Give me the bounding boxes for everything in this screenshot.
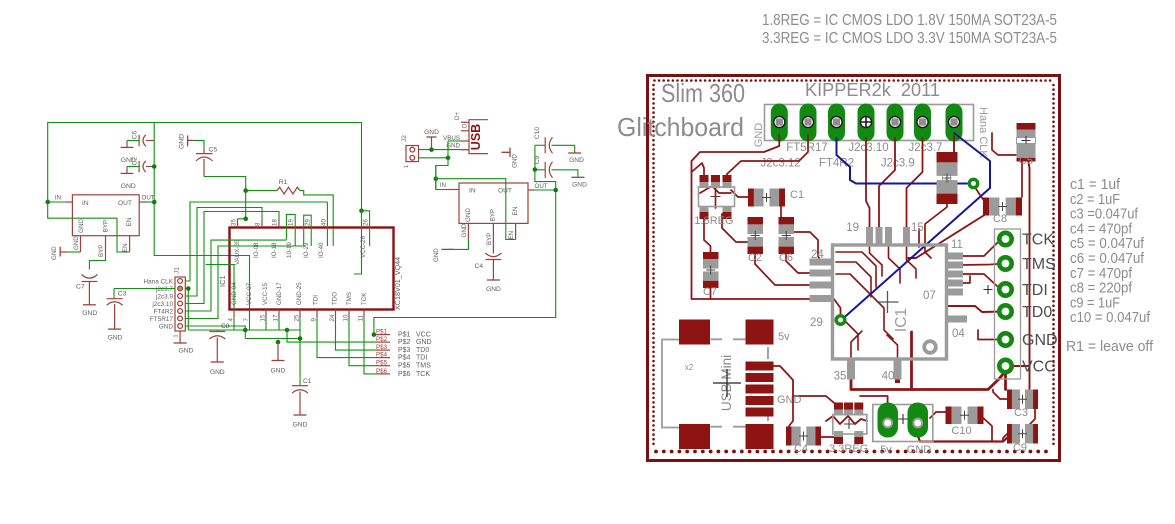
capacitor C4 [786, 427, 792, 446]
ground GND C10 [568, 152, 581, 154]
junction GND sym [276, 340, 281, 345]
wire hana to C5 [992, 133, 1016, 155]
svg-text:GND: GND [512, 154, 519, 168]
svg-text:Hana CLK: Hana CLK [144, 278, 174, 285]
svg-text:GND: GND [416, 339, 432, 346]
svg-text:VCC: VCC [416, 332, 431, 339]
svg-text:c9 = 1uF: c9 = 1uF [1070, 295, 1120, 311]
wire C9/C10 left [535, 145, 556, 190]
capacitor C3 [1007, 390, 1012, 410]
wire via to C8 [973, 184, 985, 202]
wire C2 to IC pin [755, 251, 821, 285]
wire IC to TMS pad [962, 264, 1004, 266]
svg-text:C5: C5 [1019, 155, 1033, 167]
svg-text:TDI: TDI [416, 355, 427, 362]
svg-text:C9: C9 [1013, 442, 1027, 454]
svg-text:R1 = leave off: R1 = leave off [1066, 339, 1154, 355]
wire 3.3REG zigzag [826, 416, 867, 424]
ground GND J1 [179, 331, 181, 343]
wire IC interior 2 [836, 262, 871, 297]
drill hole IC1 [924, 341, 936, 353]
svg-text:GND: GND [107, 335, 122, 342]
wire VCC pad right [1011, 365, 1030, 367]
svg-text:c1 = 1uf: c1 = 1uf [1070, 177, 1121, 193]
pin 4 [233, 310, 235, 318]
pin 15 pad [903, 227, 910, 244]
pin IN REG2 [448, 189, 459, 191]
svg-text:35: 35 [834, 371, 847, 383]
svg-text:P$3: P$3 [398, 347, 411, 354]
svg-text:c6 = 0.047uf: c6 = 0.047uf [1070, 251, 1145, 267]
svg-text:R1: R1 [279, 179, 288, 186]
capacitor C1 [748, 189, 754, 207]
wire header5 to IC [879, 138, 895, 229]
pad GND [999, 333, 1011, 345]
svg-text:EN: EN [126, 218, 133, 227]
pad header pin 1 [771, 104, 788, 142]
pad header pin 2 [800, 104, 817, 142]
voltage regulator REG1 (1.8REG) [72, 195, 139, 236]
wire GND loop left [692, 135, 841, 317]
pin 11 [363, 310, 365, 318]
pad TDI [999, 283, 1011, 295]
wire bundle FT5R17 [185, 246, 303, 319]
wire C10 right down [981, 416, 992, 442]
svg-text:D+: D+ [454, 112, 461, 120]
voltage regulator REG2 (3.3REG) [459, 183, 528, 223]
capacitor C1 [292, 385, 308, 387]
wire C10 left [930, 412, 946, 418]
pin EN REG1 [129, 236, 131, 252]
svg-text:GND-17: GND-17 [276, 282, 283, 305]
svg-text:C1: C1 [790, 189, 804, 201]
wire C7 gnd [710, 285, 712, 299]
wire 1.8REG interior [700, 186, 731, 193]
wire blue net hana [843, 133, 990, 319]
svg-text:C1: C1 [303, 378, 312, 385]
wire IC interior 7 [907, 246, 917, 278]
resistor R1 [246, 190, 277, 192]
wire C5 to R1 node [204, 177, 246, 219]
IC1 footprint outline [833, 245, 947, 359]
junction C1 node [298, 336, 303, 341]
svg-text:TCK: TCK [361, 292, 368, 305]
svg-text:GND: GND [293, 422, 308, 429]
wire blue net FT4R2 [837, 138, 968, 184]
svg-text:C2: C2 [132, 157, 139, 166]
ground GND under IC [277, 342, 279, 360]
junction R1 node [243, 188, 248, 193]
svg-text:BYP: BYP [486, 233, 493, 245]
svg-text:IO-18: IO-18 [271, 242, 278, 258]
svg-text:P$4: P$4 [376, 352, 388, 359]
wire header7 to R1 [953, 136, 955, 154]
capacitor C8 [216, 330, 218, 332]
wire border to 1.8REG pad1 [692, 163, 705, 176]
wire header6 to IC pin15 [907, 138, 923, 229]
wire GND J1 pin7 [185, 326, 245, 330]
wire IC interior 8 [887, 335, 898, 358]
wire J2-1 to USB GND [419, 149, 462, 151]
wire OUT net [535, 189, 556, 191]
pin 40 U-loop [326, 202, 328, 246]
svg-text:TCK: TCK [416, 371, 430, 378]
svg-text:IC1: IC1 [218, 275, 227, 287]
capacitor C2 [138, 161, 140, 172]
svg-text:GND: GND [424, 129, 439, 136]
svg-text:J2c3.10: J2c3.10 [848, 142, 888, 154]
pad TCK [999, 233, 1011, 245]
svg-text:BYP: BYP [103, 220, 110, 232]
wire BYP to C7 [89, 252, 105, 270]
wire header2 to 1.8REG [727, 135, 808, 180]
junction C2 [152, 164, 157, 169]
svg-text:P$2: P$2 [376, 336, 388, 343]
connector J2 [406, 146, 419, 162]
svg-text:C6: C6 [132, 130, 139, 139]
svg-text:KIPPER2k 2011: KIPPER2k 2011 [805, 80, 940, 100]
pin 35 [237, 219, 239, 228]
pin IN REG1 [65, 201, 73, 203]
ground GND REG2 [448, 240, 469, 250]
svg-text:C4: C4 [794, 443, 808, 455]
svg-text:c7 = 470pf: c7 = 470pf [1070, 266, 1133, 282]
svg-text:R1: R1 [941, 173, 953, 183]
svg-text:GND: GND [178, 348, 193, 355]
svg-text:J1: J1 [174, 267, 181, 274]
svg-text:1.8REG = IC CMOS LDO 1.8V 150M: 1.8REG = IC CMOS LDO 1.8V 150MA SOT23A-5 [762, 12, 1057, 29]
svg-text:C6: C6 [779, 252, 793, 264]
right pins [946, 253, 963, 260]
svg-text:IN: IN [469, 188, 476, 195]
pin 7 [249, 310, 251, 318]
wire bundle j2c3.9 [185, 208, 262, 297]
svg-text:IN: IN [82, 200, 89, 207]
wire interior net [206, 265, 234, 310]
svg-text:P$6: P$6 [376, 368, 388, 375]
svg-text:C5: C5 [209, 147, 218, 154]
wire C8 down left [908, 214, 986, 258]
USB Mini middle pins [746, 362, 774, 371]
svg-text:40: 40 [321, 219, 328, 226]
pad TMS [999, 257, 1011, 269]
svg-text:GND: GND [73, 236, 80, 250]
wire TCK P$6 [364, 318, 375, 374]
wire C6 to IC pin [786, 251, 821, 273]
svg-text:TDO: TDO [332, 292, 339, 305]
svg-text:C10: C10 [951, 425, 971, 437]
ground GND left of REG1 [60, 247, 67, 257]
ground GND C5 [188, 135, 193, 146]
svg-text:P$3: P$3 [376, 344, 388, 351]
svg-text:GND: GND [78, 219, 85, 233]
svg-text:29: 29 [810, 317, 823, 329]
wire R1 down [925, 200, 947, 258]
svg-text:GND: GND [210, 369, 225, 376]
pin 8 [261, 221, 263, 228]
pad TD0 [999, 305, 1011, 317]
wire 1.8REG to C2 [722, 214, 750, 242]
svg-text:EN: EN [512, 207, 519, 216]
wire IC interior 5 [870, 246, 883, 276]
svg-text:J2: J2 [401, 135, 408, 142]
svg-text:Glitchboard: Glitchboard [617, 112, 744, 142]
junction GND C8 [243, 328, 248, 333]
junction GND [285, 328, 290, 333]
pin BYP REG2 [492, 223, 494, 253]
pin 15 [265, 310, 267, 318]
ground GND C3 [108, 328, 121, 330]
svg-text:BYP: BYP [490, 209, 497, 221]
svg-text:IN: IN [440, 182, 446, 189]
pin P$4 [375, 357, 390, 359]
pin P$3 [375, 349, 390, 351]
svg-text:j2c3.10: j2c3.10 [151, 301, 173, 308]
wire C5 to C3 long [1028, 160, 1030, 389]
svg-text:VCC: VCC [1022, 359, 1056, 376]
svg-text:04: 04 [952, 328, 965, 340]
capacitor C2 [748, 217, 764, 224]
svg-text:c8 = 220pf: c8 = 220pf [1070, 281, 1133, 297]
svg-text:c10 = 0.047uf: c10 = 0.047uf [1070, 310, 1151, 326]
wire IC to TD0 pad [946, 306, 1004, 312]
svg-text:D-: D- [462, 121, 469, 128]
svg-text:TMS: TMS [416, 363, 431, 370]
connector USB Mini pads [679, 320, 710, 345]
wire IC interior 1 [836, 252, 876, 287]
pin 19 U-loop [286, 214, 295, 246]
connector top header outline [765, 105, 974, 141]
svg-text:j2c3.9: j2c3.9 [155, 293, 173, 300]
pin GND USB [461, 149, 469, 151]
wire IC pin down [962, 276, 970, 283]
svg-text:Hana CLK: Hana CLK [977, 107, 989, 158]
svg-text:C10: C10 [534, 127, 541, 139]
svg-text:C8: C8 [993, 213, 1007, 225]
svg-text:TDI: TDI [313, 295, 320, 305]
svg-text:26: 26 [363, 219, 370, 226]
wire VBUS down [448, 140, 461, 142]
svg-text:P$4: P$4 [398, 355, 411, 362]
svg-text:GND: GND [433, 248, 440, 262]
wire C1 link [731, 190, 748, 197]
svg-text:TMS: TMS [346, 292, 353, 305]
svg-text:J2c3.12: J2c3.12 [760, 158, 800, 170]
svg-text:3.3REG: 3.3REG [829, 443, 868, 455]
dotted inner border [653, 79, 656, 82]
wire EN tie [436, 179, 516, 240]
wire VCC pad down [1004, 366, 1007, 390]
wire VCC rail [851, 366, 1006, 390]
wire IC interior 3 [836, 274, 893, 339]
svg-text:C7: C7 [703, 286, 717, 298]
wire C9 gnd [1003, 434, 1007, 442]
svg-text:C8: C8 [221, 323, 230, 330]
svg-text:GND: GND [465, 208, 472, 222]
svg-text:07: 07 [923, 290, 936, 302]
junction IN REG1 [45, 200, 50, 205]
pad header pin 4 [858, 104, 875, 142]
connector USB [469, 120, 488, 154]
svg-text:C3: C3 [118, 291, 127, 298]
wire bundle j2c3.10 [185, 212, 279, 304]
svg-text:OUT: OUT [535, 183, 548, 190]
pin J1-3 [178, 294, 183, 299]
wire C5 to C8 [1021, 161, 1023, 197]
pin 18 [278, 221, 280, 228]
svg-text:C9: C9 [534, 155, 541, 164]
pad header pin 7 [946, 104, 963, 142]
pin 17 [278, 310, 280, 318]
svg-text:VCC-15: VCC-15 [262, 282, 269, 305]
wire j2c3.7 / C3 [114, 288, 175, 290]
svg-text:IO-08: IO-08 [253, 242, 260, 258]
capacitor C9 [535, 169, 545, 171]
svg-text:C3: C3 [1014, 407, 1028, 419]
capacitor C8 [983, 198, 989, 216]
pin 10 [348, 310, 350, 318]
capacitor C10 [535, 144, 545, 146]
svg-text:GND: GND [753, 123, 765, 148]
ground GND C2 [126, 167, 128, 174]
svg-text:c5 = 0.047uf: c5 = 0.047uf [1070, 236, 1145, 252]
wire TD0 P$3 [336, 318, 376, 351]
svg-text:C4: C4 [475, 263, 484, 270]
svg-text:GND: GND [271, 368, 286, 375]
svg-text:C2: C2 [748, 252, 762, 264]
svg-text:GND: GND [461, 223, 468, 237]
svg-text:x2: x2 [685, 363, 694, 372]
pin J1-4 [178, 301, 183, 306]
svg-text:GND: GND [572, 182, 587, 189]
wire OUT stub [148, 201, 154, 203]
wire GND pad link [978, 330, 1004, 340]
svg-text:c4 = 470pf: c4 = 470pf [1070, 221, 1133, 237]
svg-text:GND: GND [777, 394, 802, 406]
svg-text:EN: EN [508, 231, 515, 240]
svg-text:P$5: P$5 [376, 360, 388, 367]
wire pin40 rail [910, 332, 913, 390]
svg-text:TD0: TD0 [416, 347, 429, 354]
wire R1 to pin40 [300, 191, 333, 246]
svg-text:TMS: TMS [1022, 256, 1056, 273]
svg-text:10-19: 10-19 [286, 242, 293, 258]
pad header pin 3 [828, 104, 845, 142]
wire C3 down C9 [1030, 409, 1035, 424]
capacitor C6 [779, 217, 795, 224]
op IC1 XC18V01_VQ44 body [230, 228, 394, 310]
pin P$5 [375, 365, 390, 367]
pin D- [461, 130, 469, 132]
svg-text:TD0: TD0 [1022, 304, 1052, 321]
wire P$2 GND [287, 330, 375, 342]
wire J2-2 to VBUS [419, 157, 449, 159]
capacitor C3 [113, 289, 115, 299]
svg-text:GND: GND [159, 323, 174, 330]
capacitor C7 [703, 252, 719, 259]
wire IC to TCK pad [962, 240, 1004, 256]
wire OUT REG1 / C6 C2 vertical [154, 123, 249, 310]
wire C4 drop [789, 396, 793, 426]
pin P$2 [375, 341, 390, 343]
pin P$1 [375, 334, 390, 336]
capacitor C7 [82, 275, 98, 279]
svg-text:TDI: TDI [1022, 282, 1048, 299]
svg-text:GND: GND [907, 444, 932, 456]
board outline [648, 76, 1060, 461]
junction VIN/pin26 node [359, 209, 364, 214]
pin BYP REG1 [105, 236, 107, 252]
svg-text:19: 19 [288, 219, 295, 226]
wire usb 5v to 3.3reg [774, 366, 839, 406]
wire EN tie to IN (through REG1 body) [48, 202, 130, 252]
svg-text:VCC-07: VCC-07 [246, 282, 253, 305]
svg-text:C7: C7 [76, 284, 85, 291]
pin J1-5 [178, 309, 183, 314]
svg-text:5v: 5v [880, 444, 892, 456]
svg-text:FT4R2: FT4R2 [153, 308, 173, 315]
pin OUT REG1 [139, 201, 148, 203]
wire IC to TDI pad [962, 274, 1004, 289]
wire VIN top net [48, 123, 362, 211]
wire IN feed [435, 166, 437, 190]
USB Mini outline [662, 340, 679, 428]
bottom pins [847, 359, 855, 380]
pin P$6 [375, 373, 390, 375]
svg-text:GND: GND [51, 246, 58, 260]
svg-text:OUT: OUT [498, 188, 512, 195]
pad VCC [999, 360, 1011, 372]
svg-text:c2 = 1uF: c2 = 1uF [1070, 192, 1120, 208]
svg-text:1.8REG: 1.8REG [694, 215, 733, 227]
capacitor C5 [193, 140, 204, 148]
pin J1-1 [178, 279, 183, 284]
svg-text:P$1: P$1 [376, 329, 388, 336]
pin J1-7 [178, 324, 183, 329]
ground GND C6 [126, 141, 128, 148]
svg-text:15: 15 [911, 222, 924, 234]
wire C3 left [993, 390, 1007, 400]
capacitor C10 [946, 407, 952, 425]
wire TDI P$4 [317, 318, 375, 358]
pin 19 pads [866, 227, 873, 244]
svg-text:FT5R17: FT5R17 [150, 316, 174, 323]
svg-text:35: 35 [231, 219, 238, 226]
left pins [810, 259, 833, 266]
svg-text:P$1: P$1 [398, 332, 411, 339]
svg-text:P$6: P$6 [398, 371, 411, 378]
svg-text:GND: GND [82, 310, 97, 317]
wire IC interior 9 [851, 331, 862, 358]
svg-text:3.3REG = IC CMOS LDO 3.3V 150M: 3.3REG = IC CMOS LDO 3.3V 150MA SOT23A-5 [762, 30, 1057, 47]
wire VCC net under IC [249, 318, 251, 331]
svg-text:GND-25: GND-25 [296, 282, 303, 305]
connector J2 pcb [873, 405, 933, 442]
junction IN node [434, 176, 439, 181]
svg-text:XC18V01_VQ44: XC18V01_VQ44 [393, 257, 402, 310]
svg-text:GND: GND [1022, 332, 1058, 349]
pin J1-2 [178, 286, 183, 291]
svg-text:IN: IN [55, 195, 61, 202]
wire IC interior 6 [889, 246, 901, 283]
pad header pin 5 [887, 104, 904, 142]
capacitor C5 [1017, 123, 1036, 130]
wire bundle Hana CLK [185, 202, 327, 281]
svg-text:EN: EN [122, 243, 129, 252]
svg-text:40: 40 [882, 371, 895, 383]
svg-text:24: 24 [811, 249, 824, 261]
pin 9 [316, 310, 318, 318]
